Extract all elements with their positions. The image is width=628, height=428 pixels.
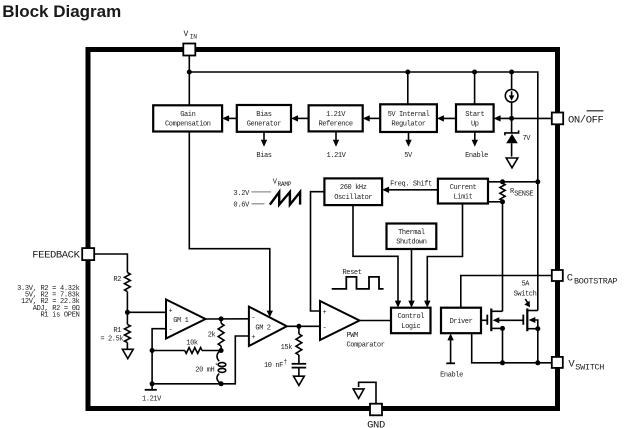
wire 10k to 2k bottom node <box>202 350 221 352</box>
svg-text:Current: Current <box>450 184 477 192</box>
svg-text:Compensation: Compensation <box>165 121 211 129</box>
svg-text:+: + <box>251 334 255 342</box>
wire Q1 source down to Vswitch rail <box>502 328 504 362</box>
svg-text:Thermal: Thermal <box>398 229 425 237</box>
value table text <box>17 285 80 320</box>
svg-text:2k: 2k <box>208 332 216 340</box>
block 5V internal regulator <box>380 104 437 132</box>
ground triangle below zener <box>506 158 518 168</box>
pin FEEDBACK <box>32 248 94 261</box>
node rail Q1 <box>500 360 505 365</box>
ground triangle below 10nF <box>294 376 305 385</box>
node 2k bottom / inductor top <box>219 348 224 353</box>
pin ON/OFF <box>552 111 604 127</box>
node rail corner above switch <box>535 179 540 184</box>
svg-text:= 2.5k: = 2.5k <box>100 336 123 344</box>
svg-text:Enable: Enable <box>440 372 463 380</box>
svg-text:260 kHz: 260 kHz <box>340 184 367 192</box>
waveform reset square wave <box>332 277 384 289</box>
node GM2 output <box>296 324 301 329</box>
svg-text:Shutdown: Shutdown <box>396 239 427 247</box>
pin V_IN <box>183 30 197 56</box>
wire PWM output to control logic <box>360 320 392 322</box>
op-amp PWM comparator <box>320 301 385 349</box>
svg-text:GM 1: GM 1 <box>173 317 188 325</box>
op-amp GM 2 <box>249 307 287 346</box>
svg-text:0.6V: 0.6V <box>233 202 250 210</box>
resistor R2 <box>125 273 131 292</box>
node R_SENSE top <box>500 179 505 184</box>
node GM1 output <box>219 316 224 321</box>
wire current limit bottom to R_SENSE bottom <box>488 201 503 203</box>
transistor Q1 small switch <box>487 309 523 332</box>
svg-text:20 mH: 20 mH <box>195 367 214 375</box>
arrow 1.21V output with label <box>335 131 337 140</box>
svg-text:R1: R1 <box>113 327 121 335</box>
node 1.21V rail left <box>150 381 155 386</box>
label 5A Switch with arrow <box>514 281 537 308</box>
wire 2k to node <box>220 346 222 351</box>
svg-text:BOOTSTRAP: BOOTSTRAP <box>574 277 617 287</box>
svg-text:7V: 7V <box>523 135 532 143</box>
wire thermal shutdown to control logic <box>411 249 413 303</box>
svg-text:1.21V: 1.21V <box>326 111 346 119</box>
svg-text:C: C <box>567 273 573 285</box>
svg-text:Bias: Bias <box>256 152 271 160</box>
wire R1 to ground triangle <box>126 343 128 349</box>
wire rail down to 5A switch drain <box>537 182 539 311</box>
wire start up to 5V regulator <box>439 117 456 119</box>
wire divider to GM1 plus input <box>127 311 166 313</box>
waveform sawtooth ramp <box>270 192 300 205</box>
resistor R_SENSE <box>500 183 505 200</box>
wire ON/OFF pin to start up <box>496 117 552 119</box>
svg-text:+: + <box>323 309 327 317</box>
svg-text:15k: 15k <box>281 344 293 352</box>
zener diode 7V <box>505 118 531 156</box>
wire GM2 output to PWM minus input <box>287 325 320 327</box>
block start up <box>456 104 494 131</box>
svg-text:Enable: Enable <box>465 152 488 160</box>
wire GM1 minus input branch <box>152 329 166 384</box>
wire to 10k <box>152 350 185 352</box>
resistor 2k <box>218 323 224 346</box>
1.21V rail symbol <box>142 384 162 404</box>
node inductor bottom <box>219 381 224 386</box>
wire rail to 5V internal regulator <box>407 72 409 104</box>
svg-text:Block Diagram: Block Diagram <box>2 2 121 21</box>
wire 1.21V reference to bias generator <box>293 117 309 119</box>
svg-text:Reference: Reference <box>318 121 352 129</box>
svg-text:Limit: Limit <box>453 194 472 202</box>
svg-text:10k: 10k <box>186 340 198 348</box>
svg-text:Gain: Gain <box>180 111 195 119</box>
block bias generator <box>237 105 291 132</box>
resistor R1 <box>125 324 131 342</box>
wire FEEDBACK pin to R2 <box>94 254 127 273</box>
arrow enable into driver <box>440 333 463 379</box>
wire rail to current source <box>511 72 513 90</box>
pin C_BOOTSTRAP <box>552 270 618 287</box>
svg-text:*: * <box>215 363 218 370</box>
svg-text:GM 2: GM 2 <box>255 324 270 332</box>
svg-text:Regulator: Regulator <box>391 121 425 129</box>
block thermal shutdown <box>387 224 437 250</box>
svg-text:IN: IN <box>190 34 197 41</box>
arrow bias output with label Bias <box>263 132 265 141</box>
node Q2 source <box>535 326 540 331</box>
wire R_SENSE bottom down to switch drain <box>502 202 504 311</box>
node 10k left <box>150 348 155 353</box>
svg-text:FEEDBACK: FEEDBACK <box>32 250 80 262</box>
wire Q2 source down to Vswitch rail <box>537 329 539 363</box>
svg-text:PWM: PWM <box>347 332 359 340</box>
wire 5V regulator to 1.21V reference <box>365 117 381 119</box>
svg-text:-: - <box>251 314 255 322</box>
arrow 5V output with label <box>408 132 410 141</box>
wire V_IN rail <box>189 72 538 182</box>
wire driver gate output <box>481 319 487 321</box>
wire driver bottom to V_SWITCH rail <box>472 333 552 363</box>
resistor 15k <box>281 326 302 355</box>
wire V_IN pin down to gain compensation <box>188 55 190 105</box>
pin GND <box>367 404 385 428</box>
node rail to 5V regulator <box>405 70 410 75</box>
ground triangle below R1 <box>122 349 133 358</box>
svg-text:Freq. Shift: Freq. Shift <box>390 180 432 188</box>
svg-text:5V Internal: 5V Internal <box>388 111 430 119</box>
pin V_SWITCH <box>552 357 605 372</box>
wire oscillator reset output to control logic <box>353 205 398 302</box>
svg-text:†: † <box>284 358 288 365</box>
node ON/OFF wire to zener branch <box>509 116 514 121</box>
svg-text:Comparator: Comparator <box>347 341 385 349</box>
svg-text:R1 is OPEN: R1 is OPEN <box>40 312 79 320</box>
ground triangle to GND pin <box>353 382 376 404</box>
svg-text:ON/OFF: ON/OFF <box>568 114 604 126</box>
wire gain compensation output down and over to GM2 <box>189 132 269 313</box>
svg-text:5A: 5A <box>521 281 530 289</box>
block 1.21V reference <box>309 105 363 131</box>
svg-text:Switch: Switch <box>514 290 537 298</box>
block control logic <box>391 308 431 334</box>
svg-text:10 nF: 10 nF <box>264 362 283 370</box>
inductor 20 mH <box>195 351 226 384</box>
svg-text:RAMP: RAMP <box>278 181 292 188</box>
wire current limit to control logic <box>427 204 462 303</box>
IC boundary <box>88 50 558 409</box>
svg-text:Bias: Bias <box>256 111 271 119</box>
current source U <box>505 90 518 119</box>
svg-text:Logic: Logic <box>401 323 420 331</box>
block gain compensation <box>153 105 222 131</box>
wire 1.21V rail <box>152 336 249 384</box>
node rail to start up <box>472 70 477 75</box>
svg-text:5V: 5V <box>404 152 413 160</box>
svg-text:GND: GND <box>367 420 385 428</box>
op-amp GM 1 <box>166 300 206 339</box>
svg-text:-: - <box>169 327 173 335</box>
svg-text:Reset: Reset <box>343 269 362 277</box>
wire bias generator to gain compensation <box>224 117 237 119</box>
node R_SENSE bottom <box>500 199 505 204</box>
node rail to current source <box>509 70 514 75</box>
block 260 kHz oscillator <box>324 178 382 205</box>
wire GM1 output to GM2 minus input <box>206 318 249 320</box>
node feedback divider <box>125 310 130 315</box>
svg-text:1.21V: 1.21V <box>142 396 162 404</box>
svg-text:3.2V: 3.2V <box>233 190 250 198</box>
wire current limit to oscillator freq shift <box>384 189 438 191</box>
svg-text:R2: R2 <box>113 276 121 284</box>
svg-text:-: - <box>323 324 327 332</box>
svg-text:SENSE: SENSE <box>514 191 533 199</box>
wire rail to start up <box>474 72 476 104</box>
block current limit <box>438 179 488 204</box>
wire current limit top to R_SENSE rail <box>488 181 538 183</box>
svg-text:SWITCH: SWITCH <box>575 362 604 372</box>
wire C_BOOTSTRAP to driver <box>461 276 552 308</box>
svg-text:Driver: Driver <box>450 318 473 326</box>
wire oscillator ramp output to PWM comparator plus input <box>311 192 325 311</box>
svg-text:Up: Up <box>471 121 479 129</box>
node V_IN rail junction <box>187 70 192 75</box>
node Q1 source <box>500 326 505 331</box>
arrow into GM2 top <box>267 311 273 318</box>
svg-text:Control: Control <box>397 313 424 321</box>
svg-text:V: V <box>184 30 189 39</box>
capacitor 10 nF <box>264 355 306 376</box>
svg-text:Start: Start <box>465 111 484 119</box>
transistor Q2 5A switch <box>523 309 538 332</box>
node rail Q2 <box>535 360 540 365</box>
wire R2 to R1 junction <box>126 292 128 325</box>
svg-text:Generator: Generator <box>247 121 281 129</box>
svg-text:+: + <box>169 308 173 316</box>
arrow start up enable output with label <box>474 132 476 141</box>
block driver <box>441 308 481 334</box>
svg-text:1.21V: 1.21V <box>326 152 346 160</box>
svg-text:Oscillator: Oscillator <box>334 194 372 202</box>
wire GM1 output node to 2k <box>220 319 222 323</box>
resistor 10k <box>185 348 202 354</box>
